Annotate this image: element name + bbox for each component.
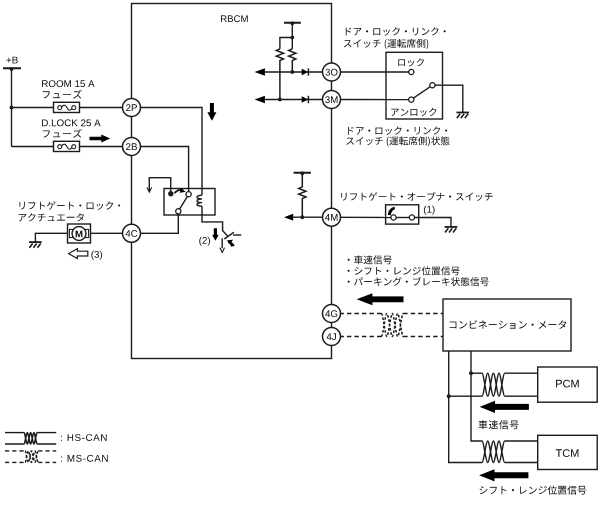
liftgate lock actuator motor M bbox=[68, 224, 91, 243]
label fuse label 1 kana bbox=[43, 90, 82, 99]
junction dot at ROOM fuse branch bbox=[10, 106, 14, 110]
3M row: arrow + wire + diode bbox=[255, 96, 265, 104]
wire meter drop left bbox=[449, 351, 482, 463]
label door lock link switch state line2 bbox=[346, 136, 449, 146]
label bullet shift range position signal bbox=[348, 266, 460, 275]
relay lever bbox=[180, 197, 188, 210]
wire pin 3M to unlock contact bbox=[340, 99, 409, 101]
pin 4M bbox=[323, 208, 341, 226]
ground (door lock link switch) bbox=[457, 112, 470, 114]
actuation arrow (3) outline left bbox=[69, 249, 88, 259]
label actuator label line2 bbox=[19, 213, 85, 221]
wire +B vertical feed bbox=[11, 68, 13, 146]
bold arrow left (CAN signals to RBCM) bbox=[357, 293, 404, 305]
pin 3O bbox=[323, 63, 341, 81]
+B terminal bar bbox=[3, 67, 21, 69]
TCM box bbox=[538, 435, 598, 469]
internal supply bar (3O/3M resistors) bbox=[284, 22, 301, 24]
junction dot HS-CAN at PCM top bbox=[469, 371, 473, 375]
opener switch actuation flag bbox=[388, 207, 395, 216]
relay coil bbox=[197, 195, 202, 206]
wire 4J MS-CAN dashed bbox=[340, 336, 382, 338]
label actuator label line1 bbox=[19, 201, 120, 210]
MS-CAN twisted pair bbox=[381, 314, 403, 337]
wire pin 4C to relay moving contact bbox=[139, 214, 178, 234]
wire supply to resistors bbox=[291, 23, 293, 49]
resistor (3O pull-up) bbox=[289, 49, 296, 72]
wire relay dot contact to open arrow bbox=[149, 178, 170, 194]
3O row: arrow + wire + diode bbox=[255, 68, 265, 76]
label ROOM 15 A bbox=[42, 80, 95, 87]
wire meter drop right bbox=[471, 351, 482, 441]
bold arrow down (2P feed) bbox=[207, 103, 216, 121]
bold arrow down near (2) bbox=[212, 228, 219, 240]
current-flow arrow (right) on D.LOCK feed bbox=[90, 135, 111, 143]
label combination meter label bbox=[450, 320, 566, 329]
HS-CAN twisted pair (PCM) bbox=[482, 373, 505, 396]
bold arrow left (vehicle speed to meter) bbox=[480, 401, 529, 413]
resistor (3M pull-up) bbox=[276, 49, 283, 100]
diode on 3M row bbox=[302, 96, 309, 102]
label door lock link switch label line2 bbox=[344, 39, 428, 49]
relay fixed contact (dot) bbox=[168, 191, 173, 196]
legend HS-CAN symbol bbox=[5, 432, 24, 434]
relay box bbox=[164, 189, 215, 216]
combination meter box bbox=[443, 299, 571, 351]
node +B label bbox=[7, 57, 18, 64]
wire motor to pin 4C bbox=[91, 232, 125, 234]
wire pin 4M to opener switch bbox=[340, 216, 392, 218]
resistor (4M pull-up) bbox=[299, 173, 306, 218]
wire 4G MS-CAN dashed bbox=[340, 313, 382, 315]
legend MS-CAN symbol bbox=[5, 450, 25, 452]
RBCM label bbox=[221, 15, 248, 22]
wire pin 2B to relay contact bbox=[139, 147, 189, 192]
wire opener switch to ground bbox=[414, 218, 451, 227]
wire MS-CAN to meter (dashed) bbox=[403, 313, 443, 315]
label vehicle speed signal label bbox=[479, 420, 519, 429]
wire pin 3O to lock contact bbox=[340, 71, 409, 73]
RBCM module box bbox=[132, 4, 332, 359]
label shift range position signal label bbox=[480, 486, 587, 495]
wire +B to D.LOCK fuse bbox=[12, 146, 54, 148]
PCM box bbox=[538, 367, 598, 402]
pin 4C bbox=[123, 224, 141, 242]
relay actuation curved arrow bbox=[175, 190, 182, 193]
wire +B to ROOM fuse bbox=[12, 107, 54, 109]
label bullet vehicle speed signal bbox=[348, 255, 392, 264]
opener switch contacts and bar bbox=[396, 217, 410, 219]
fuse ROOM 15 A bbox=[54, 102, 80, 112]
wire D.LOCK fuse to pin 2B bbox=[80, 146, 125, 148]
pin 2P bbox=[123, 99, 141, 117]
internal supply bar (4M resistor) bbox=[294, 172, 311, 174]
label lock label bbox=[398, 58, 424, 66]
label bullet parking brake state signal bbox=[348, 277, 489, 286]
pin 4J bbox=[323, 328, 341, 346]
label fuse label 2 kana bbox=[43, 129, 82, 138]
label liftgate opener switch label bbox=[341, 192, 493, 201]
relay contact (from 2B) bbox=[186, 192, 191, 197]
HS-CAN twisted pair (TCM) bbox=[482, 441, 505, 463]
4M row: arrow + wire bbox=[284, 214, 293, 221]
pin 3M bbox=[323, 91, 341, 109]
label door lock link switch label line1 bbox=[346, 27, 446, 36]
fuse D.LOCK 25 A bbox=[54, 141, 80, 151]
ground (opener switch) bbox=[445, 226, 458, 228]
wire switch common to ground bbox=[435, 85, 463, 112]
door lock link switch box bbox=[386, 52, 443, 119]
switch common contact + lever bbox=[430, 83, 435, 88]
ground (actuator) bbox=[29, 241, 42, 243]
label D.LOCK 25 A bbox=[42, 119, 101, 126]
pin 4G bbox=[323, 305, 341, 323]
wire pin 2P to relay coil bbox=[139, 108, 202, 196]
wire relay coil to indicator bbox=[202, 206, 228, 236]
wire ROOM fuse to pin 2P bbox=[80, 107, 125, 109]
diode on 3O row bbox=[302, 69, 309, 75]
liftgate opener switch box bbox=[386, 205, 419, 224]
indicator symbol (2) bbox=[224, 232, 234, 239]
wire HS-CAN to PCM bbox=[471, 372, 482, 374]
wire motor to ground bbox=[35, 233, 67, 242]
pin 2B bbox=[123, 138, 141, 156]
bold arrow left (shift range to meter) bbox=[479, 469, 528, 481]
label door lock link switch state line1 bbox=[348, 127, 447, 135]
junction dot HS-CAN at PCM bottom bbox=[447, 394, 451, 398]
relay moving contact bbox=[176, 209, 181, 214]
label unlock label bbox=[391, 108, 436, 116]
